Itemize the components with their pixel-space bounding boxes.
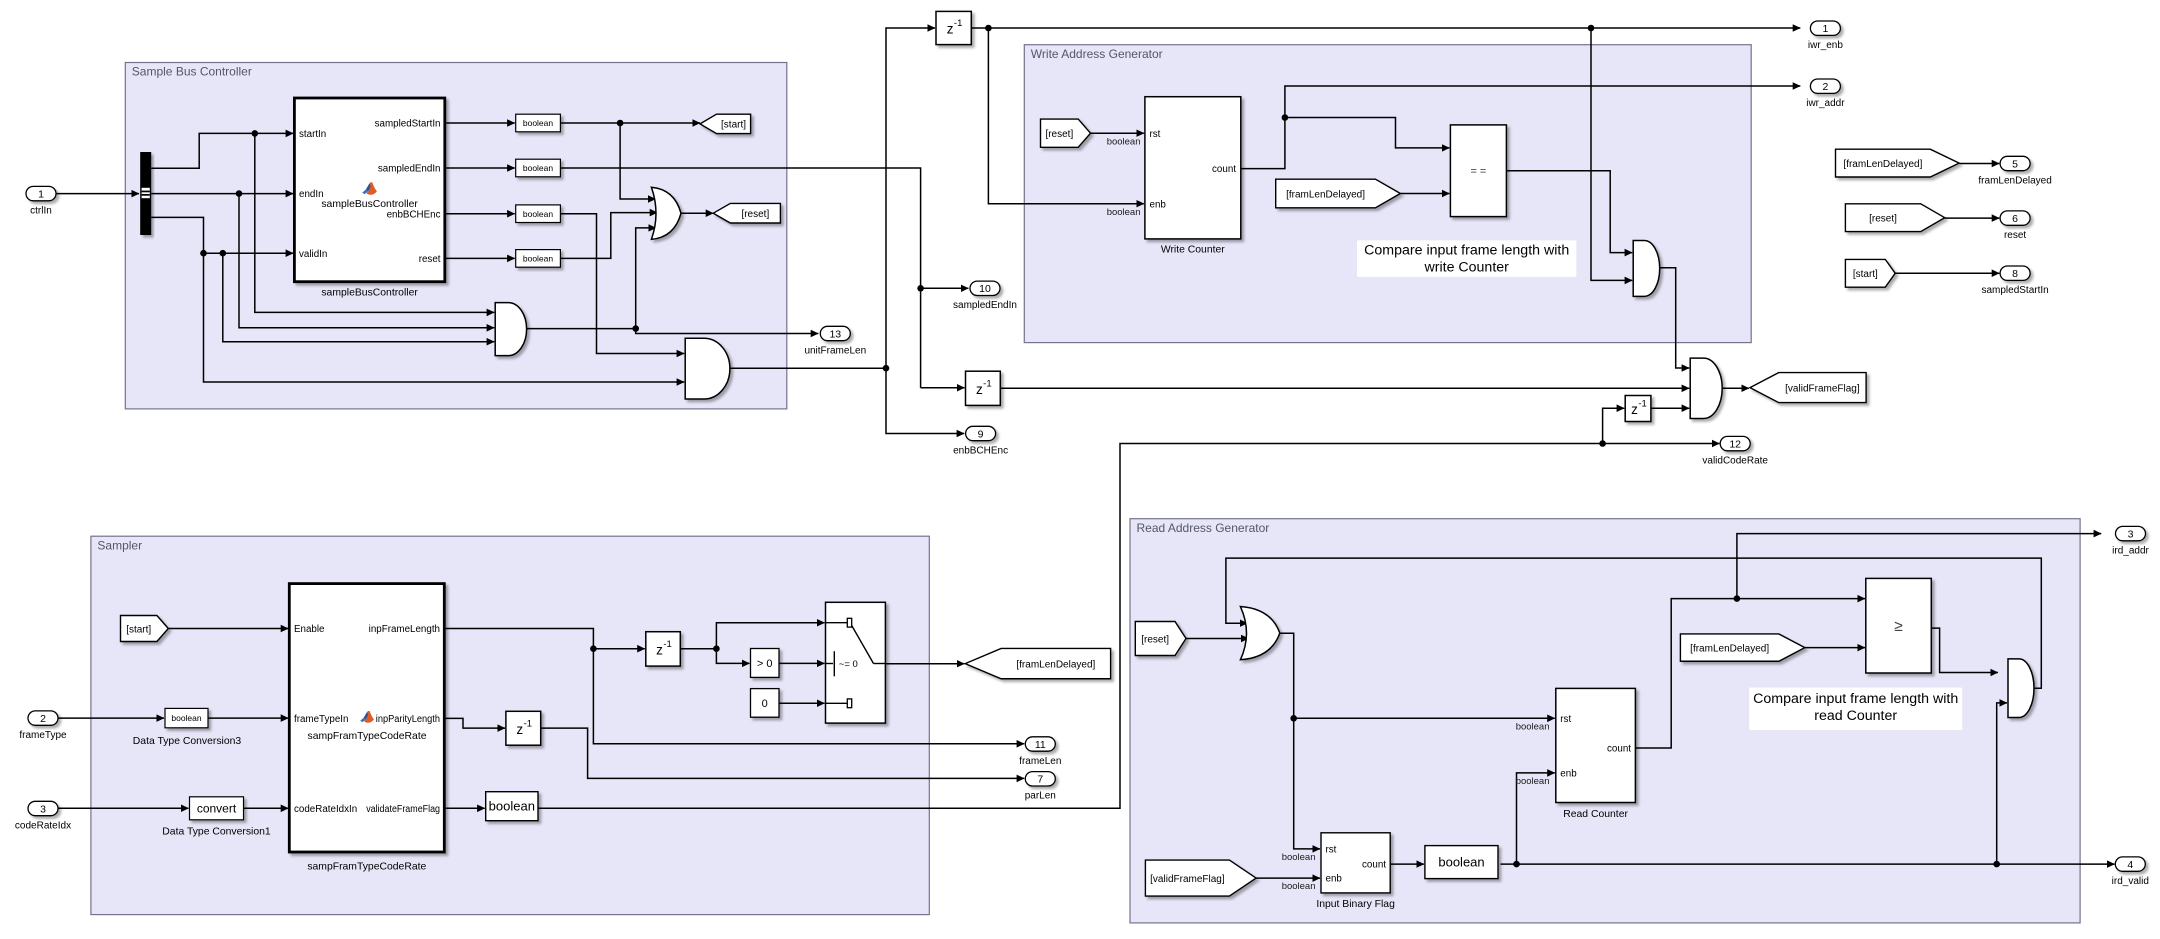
svg-text:0: 0 <box>762 698 768 710</box>
svg-text:4: 4 <box>2127 859 2133 871</box>
svg-text:Read Address Generator: Read Address Generator <box>1137 521 1270 535</box>
svg-text:Enable: Enable <box>294 624 325 635</box>
svg-text:sampleBusController: sampleBusController <box>321 199 418 210</box>
svg-text:[validFrameFlag]: [validFrameFlag] <box>1785 383 1860 394</box>
svg-text:[framLenDelayed]: [framLenDelayed] <box>1016 659 1095 670</box>
svg-text:boolean: boolean <box>171 713 202 723</box>
svg-text:1: 1 <box>38 188 44 200</box>
svg-text:boolean: boolean <box>523 254 554 264</box>
svg-text:sampleBusController: sampleBusController <box>321 287 418 298</box>
svg-text:validIn: validIn <box>299 249 327 260</box>
svg-text:[framLenDelayed]: [framLenDelayed] <box>1690 643 1769 654</box>
svg-text:-1: -1 <box>524 718 532 729</box>
svg-text:endIn: endIn <box>299 189 324 200</box>
svg-text:sampFramTypeCodeRate: sampFramTypeCodeRate <box>307 862 426 873</box>
svg-text:-1: -1 <box>983 378 991 389</box>
svg-text:boolean: boolean <box>523 118 554 128</box>
svg-text:reset: reset <box>2004 230 2026 241</box>
svg-text:sampledStartIn: sampledStartIn <box>375 119 441 130</box>
svg-text:7: 7 <box>1037 774 1043 786</box>
svg-text:count: count <box>1607 744 1631 755</box>
svg-text:boolean: boolean <box>1107 207 1141 218</box>
svg-text:Input Binary Flag: Input Binary Flag <box>1316 899 1395 910</box>
svg-text:2: 2 <box>40 713 46 725</box>
svg-text:sampledEndIn: sampledEndIn <box>378 164 441 175</box>
svg-text:count: count <box>1362 860 1386 871</box>
svg-text:Write Address Generator: Write Address Generator <box>1031 47 1163 61</box>
svg-text:enbBCHEnc: enbBCHEnc <box>387 209 441 220</box>
svg-text:z: z <box>1631 402 1638 417</box>
svg-text:validCodeRate: validCodeRate <box>1702 455 1768 466</box>
svg-text:startIn: startIn <box>299 129 326 140</box>
svg-text:[reset]: [reset] <box>741 209 769 220</box>
svg-text:[start]: [start] <box>126 624 151 635</box>
svg-text:enbBCHEnc: enbBCHEnc <box>953 445 1008 456</box>
svg-text:enb: enb <box>1326 874 1343 885</box>
svg-text:boolean: boolean <box>489 799 535 814</box>
svg-text:ird_valid: ird_valid <box>2112 876 2149 887</box>
svg-text:11: 11 <box>1035 739 1046 751</box>
svg-text:Write Counter: Write Counter <box>1161 244 1225 255</box>
svg-text:~= 0: ~= 0 <box>839 659 858 670</box>
svg-text:-1: -1 <box>954 18 962 29</box>
svg-text:[validFrameFlag]: [validFrameFlag] <box>1150 874 1225 885</box>
svg-text:sampledEndIn: sampledEndIn <box>953 300 1017 311</box>
svg-text:Sampler: Sampler <box>97 538 142 552</box>
svg-text:inpFrameLength: inpFrameLength <box>369 624 440 635</box>
svg-text:10: 10 <box>979 283 991 295</box>
svg-text:≥: ≥ <box>1894 618 1903 635</box>
svg-text:sampFramTypeCodeRate: sampFramTypeCodeRate <box>308 731 427 742</box>
svg-text:-1: -1 <box>663 639 671 650</box>
svg-text:9: 9 <box>978 428 984 440</box>
svg-text:inpParityLength: inpParityLength <box>376 714 440 725</box>
svg-text:z: z <box>656 642 663 657</box>
svg-text:3: 3 <box>40 803 46 815</box>
svg-text:frameLen: frameLen <box>1019 756 1061 767</box>
svg-text:parLen: parLen <box>1025 791 1056 802</box>
svg-text:read Counter: read Counter <box>1814 708 1897 724</box>
svg-text:[reset]: [reset] <box>1045 129 1073 140</box>
svg-text:rst: rst <box>1560 714 1571 725</box>
svg-text:rst: rst <box>1326 844 1337 855</box>
svg-text:boolean: boolean <box>1438 855 1484 870</box>
svg-text:boolean: boolean <box>523 209 554 219</box>
svg-text:1: 1 <box>1822 23 1828 35</box>
svg-text:Data Type Conversion3: Data Type Conversion3 <box>133 736 242 747</box>
svg-text:boolean: boolean <box>1107 137 1141 148</box>
svg-text:> 0: > 0 <box>757 658 773 670</box>
svg-text:2: 2 <box>1822 81 1828 93</box>
svg-text:iwr_enb: iwr_enb <box>1808 40 1843 51</box>
svg-text:ctrlIn: ctrlIn <box>30 205 52 216</box>
svg-text:validateFrameFlag: validateFrameFlag <box>366 804 440 815</box>
svg-text:convert: convert <box>197 801 237 815</box>
svg-text:3: 3 <box>2128 528 2134 540</box>
svg-text:boolean: boolean <box>1516 776 1550 787</box>
svg-text:13: 13 <box>829 328 841 340</box>
svg-text:z: z <box>516 722 523 737</box>
svg-text:sampledStartIn: sampledStartIn <box>1981 285 2048 296</box>
svg-text:12: 12 <box>1729 438 1741 450</box>
svg-text:unitFrameLen: unitFrameLen <box>804 345 866 356</box>
svg-text:[reset]: [reset] <box>1141 634 1169 645</box>
svg-text:Data Type Conversion1: Data Type Conversion1 <box>162 827 271 838</box>
svg-text:[start]: [start] <box>1853 269 1878 280</box>
svg-text:ird_addr: ird_addr <box>2112 545 2149 556</box>
svg-text:iwr_addr: iwr_addr <box>1806 98 1845 109</box>
svg-text:framLenDelayed: framLenDelayed <box>1978 175 2051 186</box>
svg-text:[framLenDelayed]: [framLenDelayed] <box>1843 159 1922 170</box>
svg-text:enb: enb <box>1560 769 1577 780</box>
svg-text:[framLenDelayed]: [framLenDelayed] <box>1286 189 1365 200</box>
svg-text:boolean: boolean <box>1516 721 1550 732</box>
svg-text:frameType: frameType <box>19 730 67 741</box>
svg-text:-1: -1 <box>1638 399 1646 410</box>
svg-text:codeRateIdx: codeRateIdx <box>15 820 71 831</box>
svg-text:count: count <box>1212 164 1236 175</box>
svg-text:Read Counter: Read Counter <box>1563 809 1628 820</box>
svg-text:Compare input frame length wit: Compare input frame length with <box>1753 691 1958 707</box>
svg-text:write Counter: write Counter <box>1424 260 1510 276</box>
svg-text:boolean: boolean <box>523 163 554 173</box>
svg-text:[reset]: [reset] <box>1869 214 1897 225</box>
svg-text:codeRateIdxIn: codeRateIdxIn <box>294 804 357 815</box>
svg-text:frameTypeIn: frameTypeIn <box>294 714 348 725</box>
svg-text:z: z <box>976 382 983 397</box>
svg-text:boolean: boolean <box>1282 852 1316 863</box>
svg-text:6: 6 <box>2012 213 2018 225</box>
svg-text:Compare input frame length wit: Compare input frame length with <box>1364 243 1569 259</box>
svg-text:enb: enb <box>1150 199 1167 210</box>
svg-text:5: 5 <box>2012 158 2018 170</box>
svg-text:reset: reset <box>419 254 441 265</box>
svg-text:8: 8 <box>2012 268 2018 280</box>
svg-text:[start]: [start] <box>721 120 746 131</box>
svg-text:z: z <box>947 22 954 37</box>
svg-text:= =: = = <box>1470 166 1486 178</box>
svg-text:rst: rst <box>1150 129 1161 140</box>
svg-text:Sample Bus Controller: Sample Bus Controller <box>132 65 252 79</box>
svg-text:boolean: boolean <box>1282 881 1316 892</box>
